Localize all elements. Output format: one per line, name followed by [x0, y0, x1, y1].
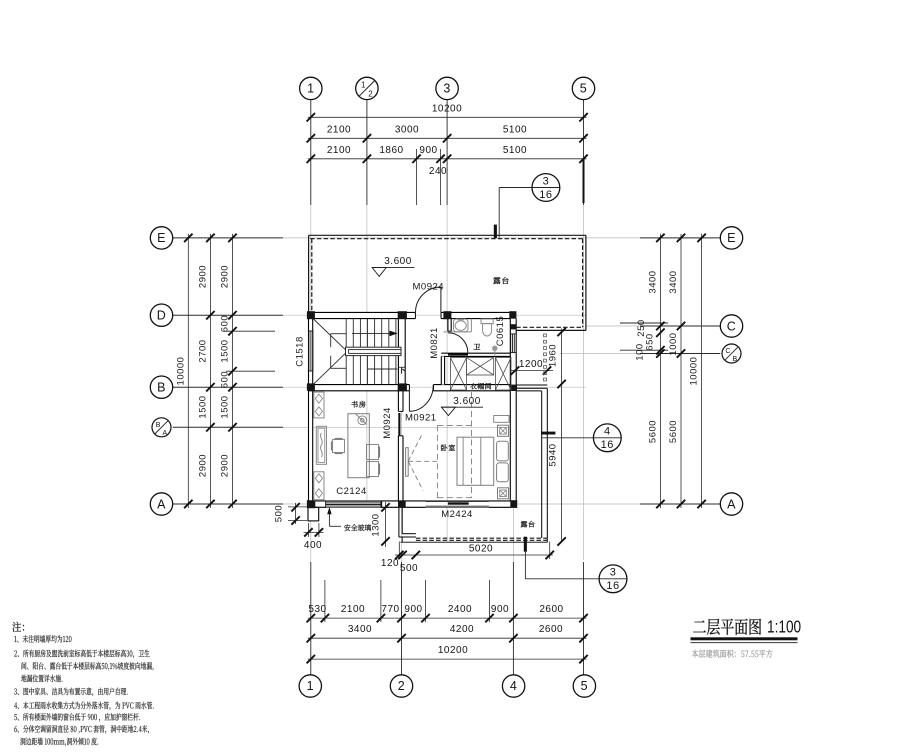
- svg-text:600: 600: [220, 315, 231, 332]
- svg-text:120: 120: [381, 558, 399, 569]
- svg-text:2700: 2700: [198, 339, 209, 362]
- svg-text:1500: 1500: [220, 395, 231, 418]
- svg-text:16: 16: [539, 189, 552, 201]
- svg-text:650: 650: [645, 333, 656, 350]
- svg-text:1: 1: [307, 82, 314, 96]
- svg-text:2600: 2600: [539, 624, 563, 635]
- svg-text:1300: 1300: [371, 513, 382, 536]
- svg-text:16: 16: [601, 439, 614, 451]
- svg-text:B: B: [733, 356, 738, 363]
- svg-text:M2424: M2424: [441, 509, 473, 520]
- svg-text:770: 770: [381, 604, 399, 615]
- svg-text:M0924: M0924: [382, 407, 393, 439]
- svg-text:100: 100: [635, 343, 646, 360]
- svg-text:2900: 2900: [198, 265, 209, 288]
- svg-text:500: 500: [400, 563, 418, 574]
- svg-text:16: 16: [606, 580, 619, 592]
- svg-text:3: 3: [610, 567, 617, 579]
- svg-text:M0821: M0821: [429, 327, 440, 359]
- svg-text:3400: 3400: [648, 270, 659, 293]
- svg-text:1200: 1200: [519, 359, 543, 370]
- svg-text:2900: 2900: [220, 265, 231, 288]
- svg-text:3: 3: [443, 82, 450, 96]
- svg-text:C1518: C1518: [295, 336, 306, 367]
- svg-text:10000: 10000: [176, 357, 187, 386]
- svg-text:A: A: [727, 497, 736, 511]
- svg-text:5600: 5600: [648, 420, 659, 443]
- svg-text:600: 600: [220, 371, 231, 388]
- svg-text:5100: 5100: [503, 145, 527, 156]
- svg-text:2400: 2400: [448, 604, 472, 615]
- svg-text:5: 5: [580, 82, 587, 96]
- svg-text:C2124: C2124: [336, 486, 367, 497]
- svg-text:900: 900: [491, 604, 509, 615]
- svg-text:1500: 1500: [220, 339, 231, 362]
- svg-text:B: B: [156, 422, 161, 429]
- svg-text:C: C: [727, 319, 737, 333]
- svg-text:B: B: [157, 381, 166, 395]
- svg-text:1:100: 1:100: [767, 618, 801, 637]
- svg-text:5: 5: [581, 679, 588, 693]
- svg-text:10200: 10200: [432, 104, 462, 115]
- svg-text:2: 2: [398, 679, 405, 693]
- svg-text:2600: 2600: [539, 604, 563, 615]
- svg-text:A: A: [157, 497, 166, 511]
- svg-text:1960: 1960: [548, 344, 559, 367]
- svg-text:5100: 5100: [503, 125, 527, 136]
- svg-text:2100: 2100: [327, 145, 351, 156]
- svg-text:5020: 5020: [469, 544, 493, 555]
- svg-text:3.600: 3.600: [384, 256, 412, 267]
- svg-text:530: 530: [308, 604, 326, 615]
- svg-text:2900: 2900: [198, 454, 209, 477]
- svg-text:240: 240: [429, 166, 447, 177]
- svg-text:900: 900: [404, 604, 422, 615]
- svg-text:E: E: [727, 231, 736, 245]
- svg-text:4: 4: [510, 679, 517, 693]
- svg-text:500: 500: [274, 505, 285, 522]
- svg-text:C0615: C0615: [495, 316, 506, 347]
- svg-text:2900: 2900: [220, 454, 231, 477]
- svg-text:4: 4: [604, 426, 611, 438]
- svg-text:1: 1: [361, 80, 366, 89]
- svg-text:1860: 1860: [379, 145, 403, 156]
- svg-text:900: 900: [419, 145, 437, 156]
- svg-text:1000: 1000: [668, 332, 679, 355]
- svg-text:3.600: 3.600: [453, 396, 481, 407]
- svg-text:3400: 3400: [668, 270, 679, 293]
- svg-text:D: D: [157, 309, 167, 323]
- svg-text:2100: 2100: [327, 125, 351, 136]
- svg-text:4200: 4200: [450, 624, 474, 635]
- svg-text:1: 1: [307, 679, 314, 693]
- svg-text:400: 400: [304, 540, 322, 551]
- svg-text:3400: 3400: [348, 624, 372, 635]
- svg-text:C: C: [725, 348, 731, 355]
- svg-text:5600: 5600: [668, 420, 679, 443]
- svg-text:10200: 10200: [438, 645, 468, 656]
- svg-text:10000: 10000: [689, 357, 700, 386]
- svg-text:3: 3: [543, 175, 550, 187]
- svg-text:5940: 5940: [548, 443, 559, 466]
- svg-text:A: A: [163, 430, 168, 437]
- svg-text:1500: 1500: [198, 395, 209, 418]
- svg-text:E: E: [157, 231, 166, 245]
- svg-text:2100: 2100: [341, 604, 365, 615]
- svg-text:3000: 3000: [395, 125, 419, 136]
- svg-text:M0921: M0921: [405, 413, 437, 424]
- svg-text:2: 2: [368, 89, 373, 98]
- svg-text:M0924: M0924: [413, 281, 445, 292]
